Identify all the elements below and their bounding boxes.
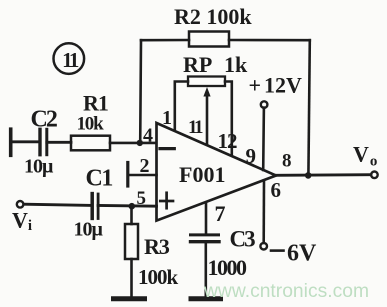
svg-text:Vo: Vo	[353, 141, 377, 169]
op-amp U1 F001	[157, 123, 277, 221]
wire: C1 to pin 5	[98, 204, 156, 208]
wire: input bar to C2	[11, 140, 39, 143]
wire: C2 to R1	[47, 141, 71, 144]
svg-text:11: 11	[188, 117, 203, 138]
svg-text:10μ: 10μ	[24, 155, 54, 177]
svg-text:+12V: +12V	[249, 73, 303, 98]
svg-text:Vi: Vi	[12, 208, 32, 235]
figure number 11	[54, 43, 85, 74]
svg-text:6: 6	[271, 178, 282, 202]
svg-text:100k: 100k	[138, 265, 179, 289]
+12V supply wire (pin 9)	[262, 108, 265, 170]
svg-text:RP: RP	[183, 52, 212, 77]
wire: top rail right of R2	[229, 39, 310, 42]
wire: right vertical from R2 down to output	[308, 40, 309, 175]
-6V terminal	[260, 243, 267, 250]
svg-text:1k: 1k	[224, 52, 248, 77]
svg-text:7: 7	[215, 201, 226, 226]
svg-text:www.cntronics.com: www.cntronics.com	[203, 281, 369, 302]
potentiometer RP	[188, 77, 225, 97]
svg-text:4: 4	[143, 124, 153, 146]
svg-text:6V: 6V	[287, 241, 317, 267]
wire: RP wiper down to pin 11	[206, 94, 209, 146]
svg-text:10μ: 10μ	[74, 219, 104, 241]
ground (under R3)	[114, 296, 145, 301]
wire: junction down to R3	[130, 206, 133, 224]
minus sign (inverting input)	[160, 147, 174, 150]
pin 6 wire down to -6V	[262, 180, 265, 243]
svg-text:R3: R3	[144, 234, 170, 259]
svg-text:11: 11	[62, 48, 79, 72]
output terminal Vo	[371, 172, 378, 179]
wire: feedback left vertical	[139, 40, 142, 143]
resistor R3	[125, 224, 138, 259]
wire: Vi to C1	[24, 204, 91, 205]
svg-text:12: 12	[218, 129, 238, 153]
+12V terminal	[261, 101, 268, 108]
wire: R3 to ground	[130, 259, 133, 296]
svg-text:C1: C1	[86, 165, 113, 191]
svg-text:1: 1	[162, 107, 172, 129]
label -6V	[271, 249, 284, 252]
svg-text:R1: R1	[83, 91, 108, 116]
capacitor C3	[191, 235, 220, 242]
svg-text:R2 100k: R2 100k	[174, 4, 252, 29]
input terminal Vi	[17, 201, 24, 208]
svg-text:F001: F001	[179, 162, 225, 187]
ground (under C3)	[191, 296, 221, 301]
resistor R1	[71, 136, 110, 151]
resistor R2	[189, 32, 229, 47]
svg-text:C3: C3	[230, 226, 256, 251]
wire: RP right end down to pin 12	[225, 82, 232, 157]
plus sign (non-inverting input)	[160, 193, 173, 208]
node: R2 right junction on output	[305, 172, 312, 179]
input terminal (top-left bar)	[9, 129, 13, 155]
pin 2 terminal bar	[126, 163, 129, 187]
svg-text:1000: 1000	[208, 255, 248, 280]
pin 7 wire down to C3	[205, 203, 208, 234]
wire: R1 to op-amp pin 4	[110, 142, 157, 145]
svg-text:8: 8	[282, 150, 292, 171]
wire: top rail left of R2	[141, 39, 189, 42]
svg-text:9: 9	[246, 144, 257, 168]
wire: C3 to ground	[205, 242, 208, 296]
node: pin 5 / R3 junction	[129, 203, 136, 210]
svg-text:10k: 10k	[77, 114, 105, 135]
capacitor C2	[40, 129, 47, 154]
wire: RP left end down to pin 1	[175, 82, 188, 132]
capacitor C1	[92, 194, 98, 219]
node: feedback / pin 4 junction	[137, 140, 143, 146]
svg-text:C2: C2	[31, 106, 57, 132]
wire: output from apex	[275, 173, 371, 176]
pin 2 stub wire	[128, 174, 157, 177]
